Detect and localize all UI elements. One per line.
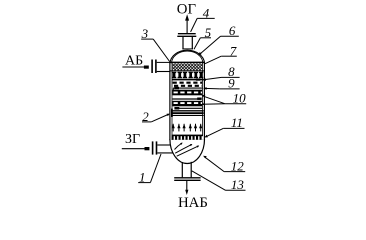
absorbent inlet pipe	[157, 62, 171, 71]
tray deck line	[172, 79, 203, 81]
distributor pipe 3	[174, 107, 202, 110]
dome base line	[169, 61, 205, 63]
label 2	[142, 109, 170, 124]
gas inlet pipe	[157, 145, 173, 153]
absorbent inlet flange	[152, 60, 156, 74]
label 8	[202, 64, 239, 81]
absorbent inlet line	[122, 66, 148, 69]
gas inlet line	[122, 147, 150, 150]
shell wall right	[202, 62, 204, 140]
gas flow arrows	[173, 124, 201, 132]
svg-text:ЗГ: ЗГ	[125, 132, 140, 147]
svg-text:НАБ: НАБ	[178, 195, 208, 211]
dome	[170, 50, 205, 63]
label 12	[203, 156, 245, 174]
gas outlet arrow	[185, 14, 189, 33]
label 4	[191, 5, 215, 32]
label 13	[192, 171, 246, 192]
tray stack lines	[171, 109, 204, 117]
bottom bowl	[170, 139, 205, 163]
spray curve 1	[175, 143, 183, 150]
spray curve 2	[175, 144, 192, 153]
demister mesh 7	[170, 63, 204, 71]
gas inlet flange	[153, 141, 157, 154]
label 5	[194, 25, 212, 49]
label 7	[205, 43, 237, 63]
packing dashed row B	[174, 85, 203, 87]
distributor pipe 1	[173, 87, 203, 91]
foam layer 1	[172, 90, 202, 96]
foam layer 2	[172, 101, 202, 107]
spray nozzles row	[172, 72, 203, 78]
spray curve 3	[177, 146, 200, 157]
svg-text:10: 10	[233, 90, 247, 105]
top flange	[177, 34, 196, 37]
support grid	[172, 135, 203, 140]
svg-text:ОГ: ОГ	[177, 2, 197, 18]
label 1	[138, 154, 161, 184]
svg-text:АБ: АБ	[125, 53, 143, 68]
bottom outlet pipe	[182, 162, 191, 178]
label 11	[204, 115, 244, 137]
label 10 fork leader	[202, 90, 247, 105]
drain arrow	[185, 181, 188, 195]
bottom flange	[174, 178, 200, 181]
gas outlet pipe	[182, 37, 193, 49]
label 6	[198, 23, 239, 55]
shell wall left	[170, 62, 172, 140]
distributor pipe 2	[172, 98, 201, 100]
label 9	[203, 76, 239, 91]
packing dashed row A	[173, 82, 203, 84]
label 3	[141, 26, 170, 62]
